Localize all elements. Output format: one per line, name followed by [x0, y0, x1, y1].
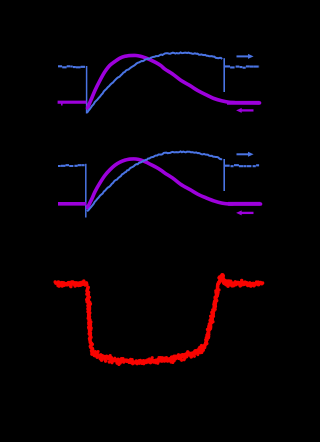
- panel 2: purple pre-ingress baseline: [58, 202, 86, 206]
- panel 1: blue time-direction arrow (rightward): [237, 54, 254, 59]
- panel 1: blue ingress vertical drop line: [86, 66, 88, 114]
- panel 2: blue data phase curve (increasing branch): [87, 151, 222, 211]
- panel 3: red in-transit bottom scatter: [90, 344, 205, 366]
- panel 1: blue pre-ingress baseline (dashed noisy): [58, 66, 85, 67]
- panel 1: blue egress vertical drop line: [223, 58, 225, 92]
- panel 1: purple time-direction arrow (leftward): [236, 108, 253, 113]
- panel 1: blue data phase curve (increasing branch): [87, 52, 222, 112]
- panel 2: purple time-direction arrow (leftward): [236, 210, 253, 215]
- panel 2: purple post-egress baseline: [228, 202, 261, 206]
- panel 3: red egress overshoot spike scatter: [221, 273, 227, 285]
- panel 2: purple model phase curve (decreasing branch): [88, 159, 261, 208]
- panel 2: blue time-direction arrow (rightward): [237, 152, 254, 157]
- panel 1: purple post-egress baseline: [227, 101, 260, 105]
- panel 3: red transit egress scatter: [203, 274, 224, 349]
- panel 2: blue ingress vertical drop line: [85, 164, 87, 218]
- panel 2: blue egress vertical drop line: [223, 159, 225, 191]
- panel 3: red pre-transit baseline scatter: [54, 279, 89, 288]
- panel 1: blue post-egress baseline (dashed noisy): [225, 66, 259, 67]
- panel 3: red transit ingress scatter: [85, 286, 94, 354]
- panel 1: purple pre-ingress baseline: [61, 104, 63, 106]
- panel 1: purple model phase curve (decreasing branch): [88, 55, 260, 108]
- panel 2: blue post-egress baseline (dashed noisy): [225, 165, 259, 166]
- panel 3: red post-transit baseline scatter: [223, 279, 264, 288]
- panel 2: blue pre-ingress baseline (dashed noisy): [58, 164, 85, 167]
